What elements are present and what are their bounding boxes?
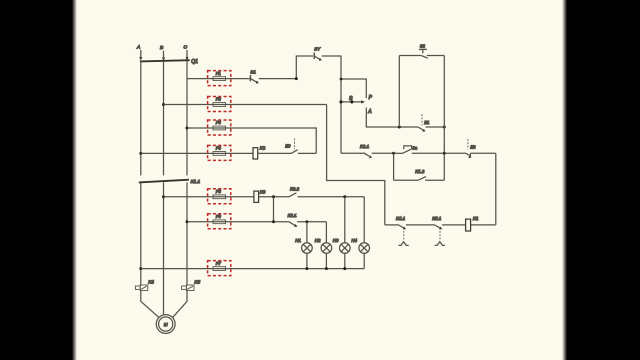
svg-text:H1: H1 bbox=[295, 238, 301, 243]
switch SY bbox=[314, 46, 322, 60]
wire phase B rail upper bbox=[163, 61, 165, 175]
wire F5 row from B rail bbox=[164, 196, 254, 198]
selector switch S wiper bbox=[339, 96, 365, 104]
wire H2 feed drop bbox=[325, 222, 327, 243]
wire neutral F7 row bbox=[141, 268, 364, 270]
node A phase label bbox=[136, 44, 140, 50]
wire phase C below thermal to motor bbox=[173, 291, 187, 318]
svg-text:S1: S1 bbox=[250, 69, 256, 74]
wire F4 row from A rail bbox=[141, 152, 253, 154]
coil K2 bbox=[253, 146, 266, 159]
svg-text:E1: E1 bbox=[424, 120, 429, 125]
wire F6 row from C rail bbox=[187, 221, 289, 223]
coil K1 contactor bbox=[466, 216, 496, 231]
svg-text:H4: H4 bbox=[351, 238, 357, 243]
svg-text:A: A bbox=[136, 44, 140, 50]
node junction A to F4 bbox=[139, 152, 142, 155]
svg-text:3a: 3a bbox=[412, 146, 417, 151]
fuse F2 bbox=[208, 97, 231, 112]
thermostat contact E2 bbox=[444, 139, 496, 158]
wire K3 to junction bbox=[259, 196, 289, 198]
node junction K3 output bbox=[272, 195, 275, 222]
node junction hold branch right bbox=[443, 152, 446, 155]
svg-text:K1: K1 bbox=[473, 216, 479, 221]
node junction K3 output lower bbox=[272, 220, 275, 223]
svg-text:F5: F5 bbox=[216, 189, 222, 194]
lamp H2 bbox=[315, 238, 332, 253]
svg-text:B: B bbox=[160, 45, 164, 51]
wire lamp H1 bottom bbox=[306, 253, 308, 268]
wire phase A rail upper bbox=[140, 61, 142, 175]
svg-text:K4: K4 bbox=[148, 279, 154, 284]
svg-text:K3.2: K3.2 bbox=[290, 187, 300, 192]
label A selector position bbox=[367, 109, 372, 115]
contact K4.1 thermal bbox=[385, 216, 435, 246]
fuse F7 bbox=[208, 261, 231, 276]
node B phase label bbox=[160, 45, 164, 51]
svg-text:E2: E2 bbox=[470, 144, 476, 149]
wire phase C rail upper bbox=[186, 61, 188, 175]
wire H3 feed drop bbox=[344, 197, 346, 243]
contact K5.1 thermal bbox=[432, 216, 465, 246]
lamp H3 bbox=[333, 238, 350, 253]
svg-text:F7: F7 bbox=[216, 261, 222, 266]
svg-text:K2: K2 bbox=[260, 146, 266, 151]
node junction hold branch left bbox=[392, 152, 395, 155]
svg-text:C: C bbox=[183, 44, 187, 50]
lamp H4 bbox=[351, 238, 369, 253]
node junction lamp H2 bottom bbox=[325, 267, 328, 270]
svg-text:F1: F1 bbox=[216, 71, 222, 76]
wire F2 row from B rail bbox=[164, 104, 327, 106]
wire S1 to SY riser bbox=[259, 56, 313, 79]
wire branch to selector contact P bbox=[341, 79, 366, 98]
node junction C to F6 bbox=[186, 220, 189, 223]
node junction B to F2 bbox=[162, 103, 165, 106]
svg-text:H3: H3 bbox=[333, 238, 339, 243]
coil K3 bbox=[254, 190, 266, 203]
wire H4 feed drop bbox=[363, 197, 365, 243]
pushbutton S2 bbox=[419, 43, 428, 58]
svg-text:K2.1: K2.1 bbox=[360, 144, 370, 149]
node junction A to F7 bbox=[139, 267, 142, 270]
fuse F1 bbox=[208, 71, 231, 86]
svg-text:A: A bbox=[367, 109, 372, 115]
wire F2 path to overload row bbox=[327, 105, 385, 225]
svg-text:SY: SY bbox=[314, 46, 321, 51]
svg-text:K1.2: K1.2 bbox=[415, 169, 425, 174]
svg-text:K3: K3 bbox=[260, 190, 266, 195]
node junction C to F3 bbox=[186, 127, 189, 130]
node junction B to F5 bbox=[162, 195, 165, 198]
label Q1 bbox=[191, 59, 198, 65]
wire phase B supply stub with arrow bbox=[162, 51, 165, 62]
fuse F5 bbox=[208, 189, 231, 204]
svg-text:H2: H2 bbox=[315, 238, 321, 243]
wire control row y153 left bbox=[341, 152, 365, 154]
wire lamp H3 bottom bbox=[344, 253, 346, 268]
svg-text:K3.1: K3.1 bbox=[288, 213, 298, 218]
svg-text:K5.1: K5.1 bbox=[432, 216, 442, 221]
wire phase A below thermal to motor bbox=[141, 291, 159, 318]
node junction S2 right leg at E1 row bbox=[443, 126, 446, 129]
disconnect switch Q1 bar bbox=[140, 60, 190, 61]
lamp H1 bbox=[295, 238, 312, 253]
contact K3.2 bbox=[289, 187, 364, 197]
wire E2 row to coil riser bbox=[495, 153, 497, 225]
contact K3.1 bbox=[288, 213, 327, 227]
fuse F6 bbox=[208, 214, 231, 229]
wire F1 row from C rail bbox=[187, 78, 250, 80]
node junction H3 feed bbox=[343, 195, 346, 198]
node C phase label bbox=[183, 44, 187, 50]
thermal contact E1 bbox=[418, 114, 444, 132]
svg-text:M: M bbox=[164, 322, 168, 327]
node junction lamp H1 bottom bbox=[305, 267, 308, 270]
svg-text:K1.1: K1.1 bbox=[191, 179, 201, 184]
wire E1 row left bbox=[399, 126, 418, 128]
svg-text:K4.1: K4.1 bbox=[396, 216, 406, 221]
contactor main contacts K1.1 bar bbox=[139, 180, 189, 183]
wire SY to control riser bbox=[322, 56, 341, 153]
pushbutton 3a bbox=[394, 146, 445, 154]
wire S2 top line and legs bbox=[399, 56, 444, 181]
wire lamp H4 bottom bbox=[363, 253, 365, 268]
thermal element K5 bbox=[182, 279, 201, 290]
node junction H1 feed bbox=[305, 220, 308, 223]
fuse F4 bbox=[208, 145, 231, 160]
node junction lamp H3 bottom bbox=[343, 267, 346, 270]
svg-text:F4: F4 bbox=[216, 146, 222, 151]
svg-text:S2: S2 bbox=[420, 43, 426, 48]
label K1.1 bbox=[191, 179, 201, 184]
svg-text:F2: F2 bbox=[216, 97, 222, 102]
wire phase A rail lower bbox=[140, 182, 142, 285]
contact K1.2 holding bbox=[394, 153, 445, 180]
contact K2.1 bbox=[360, 144, 394, 158]
wire selector contact A to E1 row bbox=[366, 108, 399, 128]
wire F3 row from C rail bbox=[187, 128, 316, 153]
svg-text:P: P bbox=[369, 95, 373, 101]
wire phase C rail lower bbox=[186, 182, 188, 285]
motor M1 bbox=[156, 315, 175, 334]
label P selector position bbox=[369, 95, 373, 101]
svg-text:E3: E3 bbox=[285, 143, 291, 148]
wire lamp H2 bottom bbox=[325, 253, 327, 268]
svg-text:F3: F3 bbox=[216, 120, 222, 125]
wire H1 feed drop bbox=[306, 222, 308, 243]
svg-text:K5: K5 bbox=[194, 279, 200, 284]
node junction selector common upper bbox=[340, 78, 343, 81]
node junction S2 left leg bbox=[398, 126, 401, 129]
svg-text:Q1: Q1 bbox=[191, 59, 198, 65]
thermostat contact E3 bbox=[285, 139, 316, 154]
svg-text:F6: F6 bbox=[216, 214, 222, 219]
wire phase A supply stub with arrow bbox=[139, 50, 142, 61]
wire K2 to E3 bbox=[258, 152, 292, 154]
thermal element K4 bbox=[135, 279, 154, 290]
wire phase B rail lower to motor bbox=[163, 182, 165, 314]
node junction at SY riser bbox=[295, 77, 298, 80]
fuse F3 bbox=[208, 120, 231, 135]
wire phase C supply stub with arrow bbox=[186, 50, 189, 61]
switch S1 bbox=[250, 69, 259, 83]
